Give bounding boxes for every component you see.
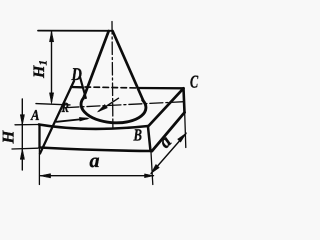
node center line: horizontal dash-dot through circle center: [66, 102, 186, 108]
edge A-D steep diagonal of top face: [40, 81, 74, 154]
arrow H1 bottom: [49, 93, 53, 104]
arrow H top (points down): [20, 115, 24, 126]
arrow a right lower: [151, 164, 159, 173]
wire: H1 top extension line from apex: [38, 30, 112, 32]
arrow a right upper: [178, 133, 187, 142]
cone left slant: [83, 31, 108, 99]
dimension a bottom line: [41, 175, 154, 177]
dimension H1 line: [51, 32, 53, 103]
right back vertical edge of plate: [184, 88, 185, 112]
leader R arrow: [57, 119, 88, 122]
wire: H bottom extension: [12, 147, 38, 150]
svg-text:B: B: [133, 126, 142, 145]
svg-text:C: C: [190, 71, 199, 91]
cone base ellipse: [81, 98, 146, 123]
node axis: vertical dash-dot center line of cone: [111, 22, 114, 129]
front bottom edge of plate: [40, 148, 153, 152]
svg-text:a: a: [90, 150, 100, 172]
radius arrow near center: [99, 98, 119, 111]
svg-text:R: R: [61, 101, 69, 116]
wire: extension line below A corner: [38, 148, 40, 185]
wire: extension below B corner: [151, 152, 153, 185]
back edge D side solid: [71, 86, 82, 89]
edge B-C receding: [148, 88, 184, 126]
back edge hidden dashed: [85, 87, 139, 88]
wire: H1 bottom extension: [36, 104, 70, 105]
svg-text:A: A: [30, 108, 39, 124]
back edge C side solid: [139, 87, 184, 90]
dimension H line: [21, 99, 23, 170]
arrow a bottom left: [40, 174, 51, 178]
right vertical edge of front face: [148, 127, 151, 151]
wire: H top extension: [15, 124, 38, 126]
dimension a right (receding) line: [151, 134, 186, 174]
front top edge A-B: [39, 125, 148, 129]
svg-text:D: D: [71, 64, 82, 84]
cone right slant: [113, 31, 143, 100]
arrow H bottom (points up): [20, 149, 24, 160]
bottom receding edge of right face: [152, 113, 185, 152]
arrow H1 top: [49, 31, 53, 42]
left vertical edge of front face: [38, 125, 40, 148]
svg-text:H1: H1: [31, 60, 49, 79]
arrow a bottom right: [145, 174, 154, 178]
wire: extension line below C corner: [185, 113, 186, 148]
svg-text:H: H: [0, 130, 18, 145]
leader from D to circle: [80, 77, 86, 98]
